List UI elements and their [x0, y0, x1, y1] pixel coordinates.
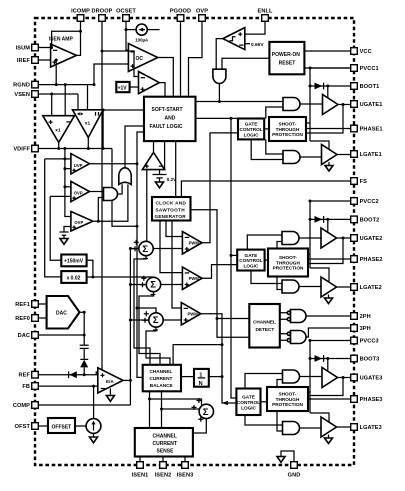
buffer LGATE3 driver [321, 417, 337, 437]
wire REF bus [38, 374, 98, 376]
svg-text:IREF: IREF [17, 58, 31, 64]
wire shoot-through stub phase 3 [308, 391, 310, 393]
block POWER-ON RESET [269, 42, 304, 74]
wire UVP lower input [65, 159, 71, 217]
battery 0.2V reference [153, 170, 178, 182]
svg-text:CHANNEL: CHANNEL [253, 320, 276, 325]
svg-text:+1V: +1V [118, 86, 128, 92]
wire current sense to S4 middle [161, 391, 163, 428]
wire OR output to fault logic [125, 126, 144, 168]
wire PGOOD down to fault logic [180, 21, 182, 97]
svg-text:LOGIC: LOGIC [241, 405, 256, 410]
svg-text:VCC: VCC [360, 49, 372, 55]
wire VDIFF rail down [112, 149, 137, 227]
wire bootstrap row phase 2 [310, 218, 351, 220]
block GATE CONTROL LOGIC phase 2 [237, 250, 264, 271]
wire channel detect to 3PH gate [280, 334, 288, 340]
wire 1/N output down to summer S4 [209, 376, 222, 378]
pin BOOT3 [351, 355, 358, 362]
svg-text:GND: GND [288, 473, 301, 479]
wire UVP output [90, 163, 138, 165]
summer S2 [140, 276, 161, 295]
svg-text:PVCC2: PVCC2 [360, 199, 379, 205]
pin PHASE3 [351, 396, 358, 403]
svg-text:PWM3: PWM3 [188, 312, 201, 317]
wire E/A output node [123, 379, 130, 381]
unity gain amp A2 x1 (points down) [73, 110, 104, 138]
svg-text:OCSET: OCSET [116, 9, 136, 15]
pin ENLL [262, 15, 269, 22]
svg-text:SENSE: SENSE [157, 449, 175, 455]
svg-text:LGATE3: LGATE3 [360, 425, 382, 431]
block SOFT-START AND FAULT LOGIC [144, 97, 196, 141]
block CHANNEL DETECT [249, 304, 279, 348]
svg-text:RESET: RESET [279, 61, 296, 67]
comparator PWM3 [181, 303, 201, 326]
wire UGATE1 output [338, 104, 351, 106]
wire sawtooth to PWM3 [172, 221, 181, 309]
ground below E/A [106, 388, 114, 401]
wire E/A trunk to summer S3 [130, 319, 149, 321]
buffer LGATE1 driver [322, 145, 338, 165]
ground below LGATE2 driver [328, 295, 330, 299]
pin 2PH [351, 313, 358, 320]
svg-text:DETECT: DETECT [256, 327, 275, 332]
wire PWM1 output to gate control 1 [202, 133, 238, 243]
wire DAC output node [80, 312, 85, 345]
wire bootstrap to UGATE2 driver [327, 219, 329, 231]
wire LGATE2 output [337, 286, 351, 288]
wire upper AND input phase 1 [266, 107, 283, 119]
svg-text:UGATE2: UGATE2 [360, 236, 383, 242]
pin IREF [32, 57, 39, 64]
wire PHASE1 line [306, 128, 351, 130]
svg-text:POWER-ON: POWER-ON [272, 52, 300, 58]
pin VDIFF [32, 145, 39, 152]
wire summer S2 to PWM2 [160, 284, 182, 286]
current source 100uA [135, 24, 149, 43]
svg-text:FS: FS [360, 179, 368, 185]
svg-text:BOOT2: BOOT2 [360, 217, 380, 223]
box 1/N divider [194, 369, 209, 387]
wire OCSET down to OC comparator [126, 21, 128, 50]
pin VSEN [32, 91, 39, 98]
wire upper AND input phase 2 [277, 242, 282, 249]
svg-text:OFFSET: OFFSET [52, 424, 72, 430]
wire rail tap to PWM3 summer [137, 308, 156, 314]
wire gate control to shoot-through phase 1 [264, 128, 269, 130]
wire lower AND input b phase 1 [251, 139, 283, 159]
wire REF1 to DAC [38, 303, 46, 305]
wire PHASE2 line [308, 258, 351, 260]
wire current sense to S4 upper [149, 391, 151, 428]
wire sawtooth to PWM2 [160, 221, 182, 273]
wire clock to channel detect trunk [191, 210, 250, 338]
wire gate control to shoot-through phase 3 [261, 401, 268, 403]
svg-text:DAC: DAC [18, 333, 30, 339]
wire OFST pin to OFFSET block [38, 425, 48, 427]
wire lower AND to LGATE driver phase 1 [300, 156, 322, 158]
pin REF [32, 371, 39, 378]
svg-text:DROOP: DROOP [91, 9, 112, 15]
AND gate 3PH [291, 331, 307, 344]
wire upper AND input phase 3 [277, 380, 283, 388]
pin OFST [32, 423, 39, 430]
svg-text:AND: AND [165, 116, 176, 122]
pin ICOMP [77, 15, 84, 22]
summer S1 [133, 240, 154, 259]
comparator OVP2 [71, 212, 93, 232]
wire ISEN3 to current sense [184, 457, 186, 462]
svg-text:VSEN: VSEN [14, 92, 30, 98]
wire balance to 1/N [181, 376, 194, 378]
wire x0.02 output joins [87, 276, 93, 278]
svg-text:REF1: REF1 [15, 302, 30, 308]
pin ISEN2 [160, 462, 167, 469]
svg-text:Σ: Σ [150, 280, 156, 291]
wire amp A2 output to VDIFF [87, 138, 89, 149]
wire trunk to channel detect upper input [217, 318, 249, 320]
diode REF clamp (points left) [69, 371, 77, 378]
svg-text:UVP: UVP [74, 163, 83, 168]
svg-text:Σ: Σ [142, 244, 148, 255]
wire IREF tie [55, 60, 57, 85]
block SHOOT-THROUGH PROTECTION phase 1 [269, 117, 306, 141]
svg-text:BOOT3: BOOT3 [360, 357, 380, 363]
wire ENLL comparator output to AND gate [216, 39, 223, 70]
wire ISEN AMP output to ICOMP pin [77, 21, 81, 55]
wire 0.66V reference stub [245, 43, 250, 45]
wire gate logic to upper AND phase 2 [247, 235, 282, 250]
wire POR to AND gate input [222, 58, 269, 69]
wire VSEN to amp A2 [77, 94, 79, 110]
svg-text:ISEN2: ISEN2 [155, 473, 172, 479]
wire OC output to fault logic [158, 58, 174, 97]
wire DROOP vertical rail [96, 21, 102, 375]
pin UGATE3 [351, 374, 358, 381]
wire OVP1 upper input [65, 186, 71, 188]
wire S3 balance input staircase [146, 327, 170, 365]
wire droop offset to PWM2 summer [93, 277, 154, 278]
wire bootstrap to UGATE3 driver [327, 359, 329, 372]
wire summer S1 to PWM1 [153, 248, 183, 250]
svg-text:SOFT-START: SOFT-START [152, 107, 183, 113]
block CHANNEL CURRENT SENSE [135, 428, 193, 457]
box x 0.02 [61, 271, 86, 283]
svg-text:CURRENT: CURRENT [153, 441, 177, 447]
svg-text:CONTROL: CONTROL [239, 258, 262, 263]
svg-text:100µA: 100µA [135, 38, 149, 43]
svg-text:CONTROL: CONTROL [237, 400, 260, 405]
svg-text:GATE: GATE [245, 122, 258, 127]
wire RGND bus [38, 84, 94, 86]
pin REF0 [32, 315, 39, 322]
wire VDIFF tap to UVP [64, 149, 66, 159]
pin ISUM [32, 44, 39, 51]
pin GND [291, 462, 298, 469]
wire bootstrap to UGATE1 driver [327, 86, 329, 98]
wire upper AND to UGATE driver phase 3 [300, 376, 323, 378]
wire VDIFF bus [38, 148, 112, 150]
pin LGATE3 [351, 424, 358, 431]
block OFFSET [48, 418, 75, 433]
OR gate OVP (points up) [119, 168, 131, 185]
pin ISEN1 [137, 462, 144, 469]
pin VCC [351, 48, 358, 55]
wire PVCC1 rail [310, 67, 351, 69]
AND gate upper phase 2 [282, 232, 299, 245]
wire DROOP tap to comparator U2 [102, 51, 139, 77]
wire PVCC rail to LGATE2 driver [310, 268, 329, 282]
box +1V reference [116, 82, 129, 92]
pin LGATE1 [351, 151, 358, 158]
svg-text:COMP: COMP [13, 403, 30, 409]
wire bootstrap row phase 1 [310, 85, 351, 87]
wire gate logic to upper AND phase 3 [245, 374, 283, 389]
block SHOOT-THROUGH PROTECTION phase 2 [268, 249, 308, 277]
svg-text:2PH: 2PH [360, 314, 371, 320]
wire lower AND to LGATE driver phase 3 [300, 427, 322, 429]
svg-text:VDIFF: VDIFF [13, 147, 30, 153]
block CLOCK AND SAWTOOTH GENERATOR [152, 197, 191, 221]
wire LGATE3 output [337, 426, 351, 428]
wire upper AND to UGATE driver phase 2 [299, 237, 321, 239]
wire gate control to shoot-through phase 2 [265, 259, 268, 261]
wire ISEN2 to current sense [162, 457, 164, 462]
block CHANNEL CURRENT BALANCE [143, 365, 181, 392]
wire UGATE2 to phase node [308, 238, 343, 264]
wire ENLL pin to comparator [245, 21, 265, 34]
AND gate enable (points down) [213, 69, 226, 83]
svg-text:PGOOD: PGOOD [170, 9, 191, 15]
wire E/A trunk to summer S1 [130, 248, 139, 250]
wire POR to VCC pin [304, 50, 350, 52]
AND gate upper phase 3 [283, 370, 300, 383]
pin COMP [32, 402, 39, 409]
wire lower AND input a phase 3 [245, 415, 283, 425]
AND gate lower phase 3 [283, 422, 300, 435]
wire fault logic to gate control trunk [196, 117, 239, 119]
wire OFFSET block to current source [75, 425, 86, 427]
wire AND gate output to fault logic and gate drive enable [196, 84, 284, 102]
current source offset [86, 419, 101, 434]
summer S4 [192, 398, 214, 422]
svg-text:BOOT1: BOOT1 [360, 84, 380, 90]
wire OC non-inverting input from RGND rail [94, 64, 128, 85]
wire balance bus upper [173, 345, 222, 365]
pin BOOT1 [351, 83, 358, 90]
wire lower AND input a phase 2 [251, 271, 282, 284]
wire lower AND to LGATE driver phase 2 [299, 286, 321, 288]
wire OVP2 lower input from battery [64, 227, 71, 233]
wire ISEN1 to current sense [139, 457, 141, 462]
wire fault logic left rail to current balance [137, 132, 144, 377]
svg-text:LOGIC: LOGIC [243, 264, 258, 269]
svg-text:x1: x1 [85, 121, 91, 127]
wire IREF to ISEN AMP non-inverting input [38, 59, 50, 61]
pin PVCC3 [351, 337, 358, 344]
wire OVP1 output to AND gate [90, 191, 104, 193]
buffer UGATE3 driver [322, 368, 338, 388]
wire OVP2 output [93, 184, 128, 221]
pin BOOT2 [351, 216, 358, 223]
pin DAC [32, 332, 39, 339]
svg-text:N: N [199, 381, 203, 387]
svg-text:ISEN1: ISEN1 [132, 473, 149, 479]
pin FB [32, 383, 39, 390]
svg-text:GATE: GATE [245, 253, 258, 258]
pin DROOP [99, 15, 106, 22]
IC boundary dashed border [35, 18, 354, 465]
svg-text:FB: FB [22, 384, 30, 390]
wire UGATE2 output [337, 237, 351, 239]
wire COMP pin OFST injection [93, 386, 95, 418]
AND gate lower phase 1 [283, 151, 300, 164]
svg-text:ISEN AMP: ISEN AMP [49, 37, 74, 43]
ground below offset current source [90, 433, 98, 442]
buffer LGATE2 driver [321, 277, 337, 297]
wire LGATE1 output [337, 154, 351, 156]
rail +150mV input [50, 196, 61, 260]
pin PGOOD [177, 15, 184, 22]
wire comparator non-inverting tap down to PWM1 summer [146, 170, 148, 242]
svg-text:Σ: Σ [203, 407, 209, 418]
battery OVP2 reference [60, 232, 69, 239]
ISEN AMP op-amp [49, 37, 77, 67]
wire PVCC rail to LGATE3 driver [310, 413, 329, 422]
wire fault logic to comparator inverting input [164, 141, 166, 170]
wire S1 balance input staircase [134, 255, 150, 365]
svg-text:x1: x1 [55, 128, 61, 134]
diode DAC clamp (points up) [80, 359, 88, 374]
wire PVCC2 rail [310, 200, 351, 202]
wire bootstrap row phase 3 [310, 358, 351, 360]
wire trunk to gate control logic 2 [231, 254, 237, 256]
wire OCSET to 100uA source [126, 29, 136, 31]
svg-text:PROTECTION: PROTECTION [272, 132, 303, 137]
svg-text:0.66V: 0.66V [251, 42, 264, 48]
svg-text:GATE: GATE [242, 395, 255, 400]
svg-text:CLOCK AND: CLOCK AND [156, 201, 187, 206]
wire OVP2 tap to AND gate [98, 198, 103, 222]
wire RGND to amp A1 [64, 85, 66, 116]
wire shoot-through stub phase 1 [306, 122, 310, 124]
pin FS [351, 178, 358, 185]
wire REF0 to DAC [38, 317, 46, 319]
wire VDIFF feedback to amp A2 [102, 110, 104, 149]
block GATE CONTROL LOGIC phase 1 [238, 119, 264, 140]
svg-text:OVP: OVP [74, 220, 83, 225]
capacitor DAC filter [80, 345, 89, 359]
comparator UVP [71, 154, 90, 174]
block SHOOT-THROUGH PROTECTION phase 3 [267, 387, 308, 411]
rail x0.02 input [45, 159, 62, 277]
wire GND pin to internal ground [281, 451, 294, 462]
node ICOMP junction [79, 30, 82, 33]
svg-text:CHANNEL: CHANNEL [153, 434, 177, 440]
svg-text:E/A: E/A [106, 379, 114, 384]
comparator PWM2 [182, 267, 202, 290]
ground below 0.2V battery [156, 182, 164, 188]
svg-text:UGATE1: UGATE1 [360, 102, 383, 108]
box +150mV [61, 255, 86, 267]
svg-text:RGND: RGND [13, 83, 30, 89]
svg-text:REF: REF [19, 373, 31, 379]
comparator OC [128, 44, 157, 72]
wire PWM2 output to gate control 2 [202, 265, 237, 279]
pin PHASE2 [351, 256, 358, 263]
svg-text:PHASE1: PHASE1 [360, 127, 383, 133]
ground symbol at GND [277, 457, 285, 463]
svg-text:LGATE1: LGATE1 [360, 152, 382, 158]
wire +150mV output [87, 260, 93, 277]
wire UGATE3 output [338, 377, 351, 379]
wire PVCC rail to LGATE1 driver [310, 141, 329, 150]
svg-text:REF0: REF0 [15, 316, 30, 322]
AND gate lower phase 2 [282, 280, 299, 293]
comparator PWM1 [182, 232, 202, 255]
wire current sense to S4 lower [193, 418, 206, 433]
svg-text:OVP: OVP [74, 191, 83, 196]
wire channel detect to 2PH gate [280, 313, 288, 319]
pin UGATE1 [351, 101, 358, 108]
svg-text:LOGIC: LOGIC [244, 133, 259, 138]
ground below LGATE1 driver [328, 162, 330, 166]
svg-text:+150mV: +150mV [64, 259, 84, 265]
svg-text:CONTROL: CONTROL [240, 127, 263, 132]
wire PVCC3 rail [310, 340, 351, 342]
comparator U2 (+1V) [139, 72, 160, 94]
svg-text:PWM1: PWM1 [189, 241, 202, 246]
pin PVCC2 [351, 198, 358, 205]
svg-text:FAULT LOGIC: FAULT LOGIC [150, 124, 183, 130]
wire RGND to amp A2 [87, 85, 89, 110]
AND gate upper phase 1 [283, 98, 300, 111]
wire +1V to comparator U2 [130, 86, 139, 88]
svg-text:GENERATOR: GENERATOR [155, 214, 187, 219]
wire ISUM to ISEN AMP inverting input [38, 47, 50, 49]
wire COMP bus [38, 404, 130, 406]
ground below LGATE3 driver [328, 435, 330, 439]
wire 3PH gate to pin [306, 328, 351, 337]
svg-text:PHASE3: PHASE3 [360, 397, 383, 403]
buffer UGATE2 driver [321, 228, 337, 248]
block GATE CONTROL LOGIC phase 3 [236, 389, 260, 416]
wire VSEN to amp A1 [51, 94, 53, 116]
wire sawtooth to PWM1 [166, 221, 182, 237]
pin UGATE2 [351, 235, 358, 242]
svg-text:ISEN3: ISEN3 [177, 473, 194, 479]
node ISUM junction [50, 46, 53, 49]
pin LGATE2 [351, 284, 358, 291]
wire upper AND to UGATE driver phase 1 [300, 103, 323, 105]
wire ISUM feedback to ICOMP node [52, 31, 81, 47]
svg-text:UGATE3: UGATE3 [360, 376, 383, 382]
wire lower AND input b phase 2 [277, 277, 282, 290]
wire VSEN bus [38, 93, 78, 95]
wire summer S3 to PWM3 [163, 319, 182, 321]
wire comparator U2 output to fault logic [159, 83, 165, 97]
svg-text:3PH: 3PH [360, 326, 371, 332]
svg-text:DAC: DAC [56, 311, 67, 317]
svg-text:CURRENT: CURRENT [150, 376, 173, 381]
svg-text:BALANCE: BALANCE [150, 383, 173, 388]
wire S2 balance input staircase [139, 291, 160, 365]
pin OCSET [123, 15, 130, 22]
svg-text:PROTECTION: PROTECTION [272, 402, 303, 407]
buffer UGATE1 driver [323, 95, 339, 115]
AND gate 2PH [291, 310, 307, 323]
